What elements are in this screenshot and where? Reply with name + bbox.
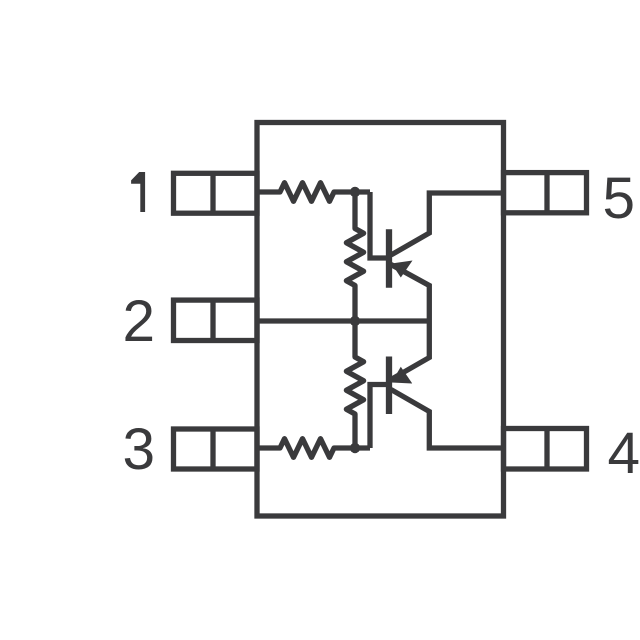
Q1 emitter arrow (PNP) — [392, 261, 413, 278]
resistor R2 (upper bias resistor, vertical) — [346, 192, 363, 321]
pin 1 label — [131, 172, 145, 212]
resistor R3 (lower bias resistor, vertical) — [346, 321, 363, 448]
pin 3 pad — [174, 429, 258, 469]
resistor R1 (pin1 base resistor) — [257, 183, 370, 202]
svg-text:4: 4 — [608, 421, 640, 486]
pin 4 pad — [504, 429, 587, 470]
pin 2 pad — [174, 300, 258, 340]
transistor Q1 emitter to pin 2 — [391, 265, 429, 322]
svg-text:3: 3 — [122, 417, 155, 482]
package body U1 — [257, 123, 504, 517]
wire pin2 (common) — [257, 318, 429, 323]
pin 1 pad — [174, 173, 258, 213]
wire pin3 node to Q2 base — [370, 385, 387, 449]
transistor Q2 base bar — [386, 357, 392, 415]
resistor R4 (pin3 base resistor) — [257, 439, 370, 458]
transistor Q1 collector to pin 5 — [391, 193, 504, 255]
node C (pin3/R3 junction) — [350, 443, 360, 453]
Q2 emitter arrow (PNP) — [392, 367, 413, 384]
node B (pin2/R2/R3 junction) — [350, 316, 360, 326]
transistor Q2 collector to pin 4 — [391, 390, 504, 449]
pin 5 pad — [504, 173, 587, 213]
svg-text:2: 2 — [122, 289, 155, 354]
node A (pin1/R2 junction) — [350, 187, 360, 197]
svg-text:5: 5 — [603, 166, 636, 231]
transistor Q1 base bar — [386, 229, 392, 287]
transistor Q2 emitter to pin 2 — [391, 321, 429, 380]
wire pin1 node to Q1 base — [370, 192, 387, 258]
